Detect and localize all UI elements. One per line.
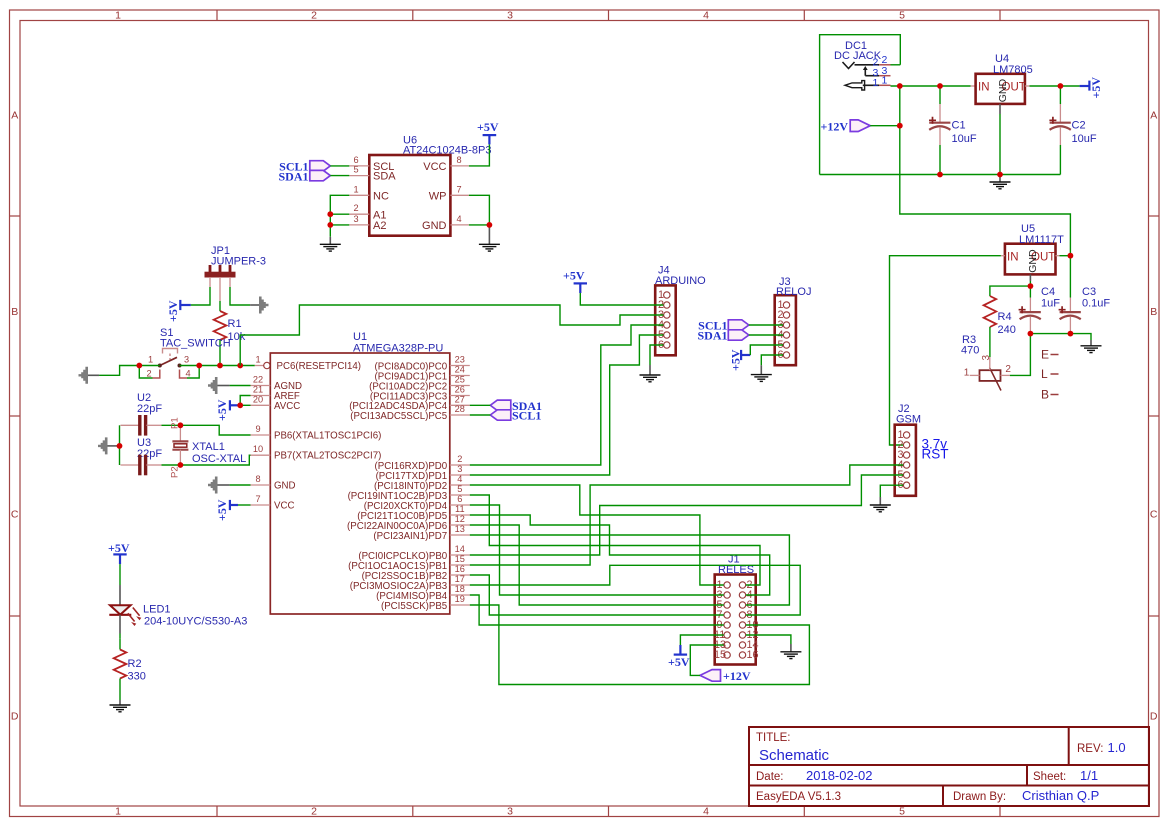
svg-text:PB6(XTAL1TOSC1PCI6): PB6(XTAL1TOSC1PCI6) (274, 431, 381, 442)
ground arrow left of S1 (79, 367, 100, 384)
svg-text:SDA1: SDA1 (697, 329, 727, 343)
svg-text:ARDUINO: ARDUINO (655, 275, 706, 287)
resistor R2 (114, 639, 146, 700)
svg-text:AVCC: AVCC (274, 401, 300, 412)
svg-text:+5V: +5V (166, 300, 180, 322)
svg-text:2018-02-02: 2018-02-02 (806, 768, 873, 783)
wire J4 pin3 to reset net (240, 305, 663, 366)
wire +5V to J3 pin5 (750, 345, 783, 355)
svg-text:24: 24 (455, 365, 465, 375)
wire PB3 to J1 pin8 (470, 565, 800, 615)
power +5V at JP1 (166, 300, 191, 322)
wire PD6 to J1 pin5 (470, 525, 724, 605)
svg-text:NC: NC (373, 190, 389, 202)
wire PB4 to J1 pin9 (470, 595, 724, 625)
wire AREF to AVCC (240, 396, 250, 406)
svg-text:A: A (11, 110, 18, 122)
pin lead U5 OUT (1056, 255, 1060, 257)
svg-text:14: 14 (455, 544, 465, 554)
svg-text:330: 330 (128, 671, 146, 683)
svg-text:U1: U1 (353, 331, 367, 343)
svg-text:6: 6 (457, 494, 462, 504)
svg-text:(PCI5SCK)PB5: (PCI5SCK)PB5 (381, 601, 447, 612)
svg-text:4: 4 (457, 474, 462, 484)
svg-text:GND: GND (997, 79, 1009, 103)
svg-text:C: C (11, 509, 19, 521)
svg-text:7: 7 (456, 184, 461, 194)
svg-text:IN: IN (978, 82, 990, 94)
U1 right pin leads (450, 366, 470, 606)
svg-text:1/1: 1/1 (1080, 768, 1098, 783)
IC U1 ATMEGA328P-PU (270, 331, 450, 614)
wire U6 NC/A1/A2 tie (330, 195, 349, 237)
crystal XTAL1 (170, 417, 247, 478)
svg-text:9: 9 (255, 424, 260, 434)
svg-text:5: 5 (899, 806, 905, 818)
wire U5 OUT to junction (1060, 255, 1071, 257)
wire U5 GND pin down (1029, 274, 1031, 281)
svg-text:D: D (11, 711, 19, 723)
svg-text:2: 2 (311, 10, 317, 22)
regulator U4 LM7805 (976, 53, 1033, 104)
svg-text:R4: R4 (998, 311, 1012, 323)
resistor R4 (984, 296, 1016, 357)
power +5V at J4 (563, 269, 587, 294)
wire PD4 to J1 pin3 (470, 505, 724, 595)
svg-text:LM1117T: LM1117T (1019, 234, 1064, 246)
wire pot pin2 to ground rail (1010, 334, 1031, 376)
svg-text:Drawn By:: Drawn By: (953, 791, 1006, 803)
svg-text:11: 11 (455, 504, 465, 514)
svg-text:16: 16 (455, 564, 465, 574)
wire +5V to J4 pin2 (580, 293, 663, 305)
svg-text:A2: A2 (373, 220, 386, 232)
svg-text:28: 28 (455, 404, 465, 414)
svg-text:22pF: 22pF (137, 403, 162, 415)
svg-text:4: 4 (703, 10, 709, 22)
power +5V right of U4 (1080, 77, 1103, 99)
svg-text:15: 15 (455, 554, 465, 564)
wire JP1 pin3 to ground (230, 287, 250, 305)
wire U4 OUT to +5V (1030, 85, 1080, 87)
svg-text:REV:: REV: (1077, 743, 1103, 755)
svg-text:27: 27 (455, 394, 465, 404)
svg-text:TITLE:: TITLE: (756, 732, 791, 744)
svg-text:21: 21 (253, 385, 263, 395)
wire J4 pin4 to PD0 (470, 325, 664, 465)
ground below U6 left (320, 237, 341, 251)
svg-text:C2: C2 (1072, 120, 1086, 132)
svg-text:18: 18 (455, 584, 465, 594)
port +12V (820, 120, 870, 134)
svg-text:4: 4 (185, 369, 190, 379)
power +5V at J3 (729, 349, 751, 371)
wire DC jack loop (820, 35, 901, 175)
connector DC1 jack symbol (843, 62, 880, 90)
port +12V at J1 (700, 669, 751, 683)
wire J2 pin4 to PB1 (470, 465, 903, 565)
power +5V above U6 (477, 120, 499, 144)
wire +12V to rail (870, 125, 900, 127)
svg-text:P2: P2 (170, 466, 181, 478)
svg-text:C: C (1150, 509, 1158, 521)
U1 left pin leads (251, 386, 271, 506)
connector J2 (895, 403, 921, 496)
wire PB5 to J1 pin10 (470, 605, 810, 685)
svg-text:3: 3 (353, 214, 358, 224)
svg-text:25: 25 (455, 375, 465, 385)
wire PC4 to SDA1 (470, 404, 491, 406)
wire SCL1 to U6 (330, 165, 349, 167)
diode LED1 (109, 585, 247, 639)
svg-text:SCL1: SCL1 (512, 409, 541, 423)
wire +5V to JP1 pin1 (191, 287, 210, 305)
wire U4 GND pin (999, 104, 1001, 114)
svg-text:1: 1 (115, 806, 121, 818)
svg-text:10: 10 (253, 444, 263, 454)
pin numbers DC1 (873, 54, 888, 89)
svg-text:1: 1 (873, 77, 879, 89)
wire U2 to P1 (162, 424, 181, 426)
svg-text:23: 23 (455, 355, 465, 365)
svg-text:1: 1 (964, 367, 970, 378)
wire U6 GND pin (469, 224, 490, 226)
svg-text:+5V: +5V (1089, 77, 1103, 99)
svg-text:2: 2 (146, 369, 151, 379)
title block (749, 727, 1149, 806)
svg-text:3: 3 (457, 464, 462, 474)
svg-text:Date:: Date: (756, 771, 784, 783)
junction dots U6 (327, 211, 333, 217)
svg-text:WP: WP (429, 190, 447, 202)
wire +12V vertical down to U5 OUT (900, 86, 1071, 256)
svg-text:TAC_SWITCH: TAC_SWITCH (160, 338, 231, 350)
svg-text:19: 19 (455, 594, 465, 604)
net flag SDA1 at J3 (697, 329, 748, 343)
U6 pin names (373, 161, 447, 232)
svg-text:1: 1 (882, 74, 888, 86)
ground below U4 (990, 175, 1011, 189)
svg-text:204-10UYC/S530-A3: 204-10UYC/S530-A3 (144, 616, 247, 628)
wire jack pin1 to U4 IN (891, 85, 971, 87)
svg-text:C4: C4 (1041, 286, 1055, 298)
connector J4 (655, 265, 706, 356)
svg-text:+5V: +5V (215, 499, 229, 521)
ground below U6 right (479, 225, 500, 251)
svg-text:GND: GND (274, 481, 296, 492)
net flag SCL1 (279, 160, 330, 174)
svg-text:12: 12 (455, 514, 465, 524)
svg-text:LED1: LED1 (143, 604, 171, 616)
svg-text:PB7(XTAL2TOSC2PCI7): PB7(XTAL2TOSC2PCI7) (274, 451, 381, 462)
svg-text:3: 3 (981, 355, 992, 361)
wire J1 pin12 to ground (746, 635, 791, 644)
svg-text:+5V: +5V (108, 541, 130, 555)
svg-text:1: 1 (115, 10, 121, 22)
pin lead U1 pin1 (255, 365, 264, 367)
pin stubs DC1 (879, 65, 890, 86)
connector J1 (714, 554, 759, 665)
U1 left pin numbers (253, 355, 263, 505)
svg-text:+5V: +5V (477, 120, 499, 134)
capacitor U2 (121, 392, 163, 436)
svg-text:4: 4 (456, 214, 461, 224)
svg-text:VCC: VCC (423, 161, 446, 173)
wire PD5 to J1 pin4 (470, 515, 770, 595)
capacitor C4 (1019, 286, 1061, 334)
svg-text:R2: R2 (128, 658, 142, 670)
svg-text:6: 6 (353, 155, 358, 165)
capacitor C3 (1059, 256, 1111, 334)
svg-text:10uF: 10uF (1072, 133, 1097, 145)
svg-text:ATMEGA328P-PU: ATMEGA328P-PU (353, 343, 443, 355)
wire J2 pin6 to ground (880, 485, 903, 497)
capacitor C1 (929, 86, 977, 175)
wire J3 pin6 to ground (761, 355, 783, 365)
pin labels E L B (1041, 348, 1059, 402)
wire SDA1 to J3 pin4 (749, 334, 783, 336)
svg-text:16: 16 (747, 649, 759, 661)
wire U6 VCC to +5V (469, 144, 490, 166)
wire PC5 to SCL1 (470, 414, 491, 416)
svg-text:AT24C1024B-8P3: AT24C1024B-8P3 (403, 145, 491, 157)
svg-text:20: 20 (253, 394, 263, 404)
wire PB2 to J1 pin7 (470, 575, 724, 615)
connector J3 (775, 276, 812, 365)
wire ground jog to S1 row (99, 366, 139, 376)
svg-text:GND: GND (422, 220, 447, 232)
svg-text:Schematic: Schematic (759, 747, 830, 764)
wire SDA1 to U6 (330, 175, 349, 177)
svg-text:+12V: +12V (723, 669, 751, 683)
U6 pin leads left (349, 166, 469, 225)
power +5V at AVCC (215, 399, 238, 421)
svg-text:SDA: SDA (373, 171, 396, 183)
net flag SCL1 at J3 (698, 319, 749, 333)
wire C4/C3 ground rail (1030, 334, 1091, 340)
wire J4 pin6 to ground (650, 345, 663, 365)
svg-text:17: 17 (455, 574, 465, 584)
svg-text:R1: R1 (228, 318, 242, 330)
power +5V at VCC pin7 (215, 499, 238, 521)
net flag SCL1 at PC5 (490, 409, 541, 423)
ground arrow at AGND (208, 377, 230, 394)
svg-text:26: 26 (455, 385, 465, 395)
power +5V at LED (108, 541, 130, 564)
svg-text:13: 13 (455, 524, 465, 534)
wire AVCC (238, 404, 251, 406)
wire LED top (119, 564, 121, 585)
wire left vertical U2/U3 (119, 425, 121, 465)
svg-text:D: D (1150, 711, 1158, 723)
connector JP1 (205, 245, 266, 301)
svg-text:5: 5 (899, 10, 905, 22)
svg-text:1: 1 (148, 355, 153, 365)
capacitor C2 (1049, 86, 1096, 175)
wire S1 row segments (139, 365, 160, 367)
ground arrow left of caps (98, 437, 120, 454)
ground arrow at GND pin8 (208, 477, 230, 494)
svg-text:3: 3 (184, 355, 189, 365)
svg-text:1.0: 1.0 (1108, 740, 1126, 755)
wire PD3 to J1 pin2 (470, 495, 760, 585)
switch S1 (139, 327, 230, 379)
wire jack pin2 to loop (891, 64, 901, 66)
svg-text:SDA1: SDA1 (278, 170, 308, 184)
ground below R2 (110, 700, 131, 712)
wire +12V to J1 pin13 (690, 645, 723, 675)
svg-text:3: 3 (507, 10, 513, 22)
connector DC1 labels (834, 40, 882, 62)
power +5V at J1 pin11 (668, 645, 690, 669)
svg-text:2: 2 (353, 203, 358, 213)
U1 right pin names (347, 361, 448, 612)
svg-text:XTAL1: XTAL1 (192, 441, 225, 453)
junction dots S1 row (136, 363, 142, 369)
wire GND node to R4 (990, 286, 1031, 296)
svg-text:5: 5 (457, 484, 462, 494)
svg-text:2: 2 (457, 454, 462, 464)
svg-text:E: E (1041, 348, 1049, 362)
svg-text:4: 4 (703, 806, 709, 818)
svg-text:8: 8 (456, 155, 461, 165)
svg-text:EasyEDA V5.1.3: EasyEDA V5.1.3 (756, 791, 841, 803)
U6 pin numbers (353, 155, 461, 224)
svg-text:LM7805: LM7805 (993, 64, 1033, 76)
svg-text:22: 22 (253, 375, 263, 385)
svg-text:IN: IN (1007, 252, 1019, 264)
wire J4 pin5 to PD1 (470, 335, 664, 475)
wire P1 row to PB6 (162, 455, 251, 465)
svg-text:GSM: GSM (896, 414, 921, 426)
svg-text:B: B (1150, 306, 1157, 318)
wire PD2 to J1 pin1 (470, 485, 724, 585)
svg-text:L: L (1041, 367, 1048, 381)
net flag SDA1 (278, 170, 330, 184)
svg-text:8: 8 (255, 474, 260, 484)
svg-text:B: B (1041, 388, 1049, 402)
svg-text:PC6(RESETPCI14): PC6(RESETPCI14) (277, 361, 362, 372)
svg-text:(PCI13ADC5SCL)PC5: (PCI13ADC5SCL)PC5 (350, 411, 447, 422)
wire AGND (230, 385, 251, 387)
svg-text:240: 240 (998, 324, 1016, 336)
svg-text:470: 470 (961, 345, 979, 357)
junction dots U5 region (1068, 253, 1074, 259)
ground at rail (1081, 340, 1102, 353)
svg-text:A: A (1150, 110, 1157, 122)
wire +5V to J1 pin11 (680, 635, 723, 645)
U1 right pin numbers (455, 355, 465, 605)
wire VCC pin7 (238, 504, 251, 506)
svg-text:GND: GND (1027, 249, 1039, 273)
svg-text:3: 3 (507, 806, 513, 818)
junction dots U4 region (897, 83, 903, 89)
svg-text:1uF: 1uF (1041, 298, 1060, 310)
ground arrow right of JP1 (250, 297, 268, 314)
svg-text:VCC: VCC (274, 501, 294, 512)
svg-text:(PCI23AIN1)PD7: (PCI23AIN1)PD7 (373, 531, 447, 542)
svg-text:7: 7 (255, 494, 260, 504)
svg-text:B: B (11, 306, 18, 318)
regulator U5 LM1117T (1005, 223, 1064, 274)
svg-text:+5V: +5V (563, 269, 585, 283)
svg-text:RST: RST (922, 447, 949, 462)
svg-text:RELOJ: RELOJ (776, 286, 811, 298)
resistor R1 (214, 301, 246, 366)
net flag SDA1 at PC4 (490, 399, 542, 413)
svg-text:+5V: +5V (668, 655, 690, 669)
svg-text:+12V: +12V (820, 120, 848, 134)
svg-text:+5V: +5V (215, 399, 229, 421)
svg-text:OSC-XTAL: OSC-XTAL (192, 453, 246, 465)
svg-text:C3: C3 (1082, 286, 1096, 298)
svg-text:1: 1 (353, 184, 358, 194)
svg-text:1: 1 (255, 355, 260, 365)
wire SCL1 to J3 pin3 (749, 324, 783, 326)
wire J2 pin5 to PB0 (470, 475, 903, 555)
wire U6 WP to GND (469, 195, 490, 225)
svg-text:5: 5 (353, 165, 358, 175)
svg-text:2: 2 (1005, 364, 1011, 375)
svg-text:2: 2 (311, 806, 317, 818)
wire GND pin8 (230, 484, 251, 486)
pin lead U4 IN (971, 85, 976, 87)
capacitor U3 (121, 437, 163, 475)
wire U5 IN to J2 pin2 (890, 256, 1001, 445)
wire ground rail (820, 174, 1061, 176)
svg-text:10uF: 10uF (952, 133, 977, 145)
U1 left pin names (274, 361, 381, 512)
svg-text:Sheet:: Sheet: (1033, 771, 1066, 783)
wire PD7 to J1 pin6 (470, 535, 790, 605)
IC U6 AT24C1024B-8P3 (369, 135, 491, 236)
svg-text:Cristhian Q.P: Cristhian Q.P (1022, 788, 1099, 803)
svg-text:15: 15 (714, 649, 726, 661)
svg-text:0.1uF: 0.1uF (1082, 298, 1110, 310)
potentiometer R3 470 (961, 334, 1011, 391)
pin lead U4 OUT (1025, 85, 1030, 87)
svg-text:C1: C1 (952, 120, 966, 132)
